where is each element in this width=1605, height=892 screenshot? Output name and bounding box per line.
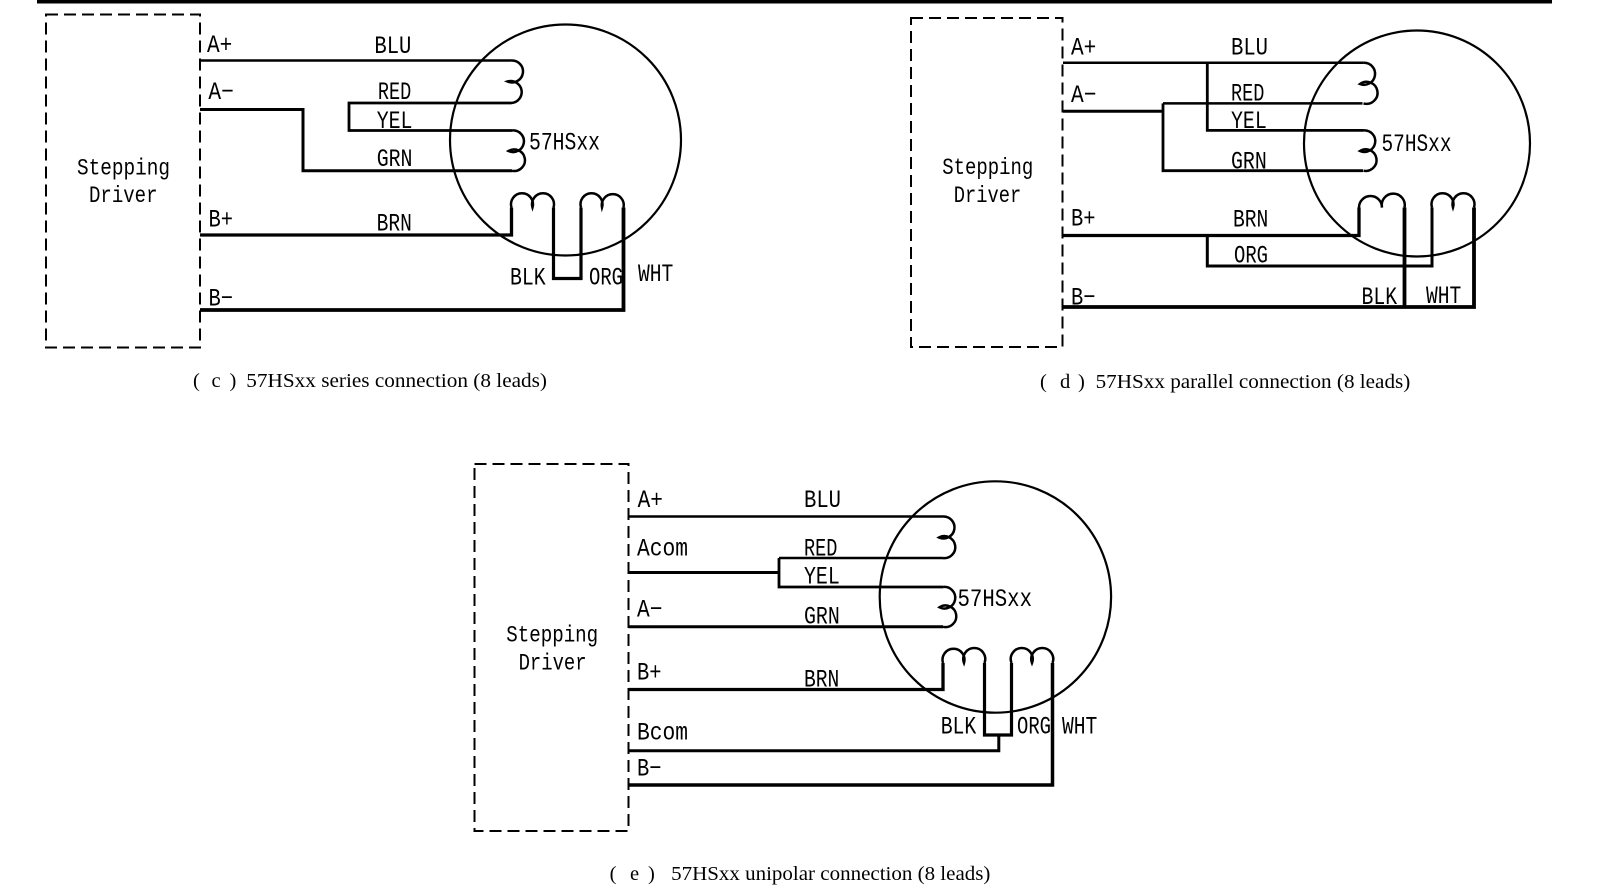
top border bar — [37, 0, 1552, 4]
svg-text:B+: B+ — [637, 659, 662, 688]
coil A2 (c) YEL-GRN winding — [509, 130, 525, 171]
wire A- (d) — [1063, 110, 1163, 113]
svg-text:RED: RED — [804, 535, 837, 564]
svg-text:YEL: YEL — [377, 107, 413, 136]
wire B+ to BRN (e) — [629, 663, 944, 690]
motor M2 outline (d) — [1304, 31, 1530, 257]
svg-text:BLK: BLK — [1362, 283, 1398, 312]
svg-text:YEL: YEL — [804, 563, 840, 592]
svg-text:BRN: BRN — [377, 210, 412, 239]
coil B1 (d) BRN-BLK winding — [1359, 194, 1405, 208]
svg-text:Driver: Driver — [954, 183, 1021, 209]
svg-text:RED: RED — [378, 78, 411, 107]
svg-text:A+: A+ — [638, 486, 663, 515]
wire RED-GRN branch vertical (d) — [1163, 103, 1363, 170]
svg-text:A−: A− — [1071, 81, 1096, 110]
driver box U2 (d) Stepping Driver — [911, 18, 1063, 347]
wire B+ branch to ORG (d) — [1207, 208, 1432, 267]
svg-text:BLU: BLU — [374, 32, 411, 61]
svg-text:WHT: WHT — [638, 260, 673, 289]
svg-text:Acom: Acom — [637, 535, 688, 564]
coil B1 (e) BRN-BLK winding — [943, 648, 986, 663]
svg-text:A−: A− — [208, 78, 233, 107]
wire RED-YEL series link (c) — [349, 103, 512, 131]
coil A2 (d) YEL-GRN winding — [1360, 130, 1377, 171]
coil B2 (e) ORG-WHT winding — [1011, 648, 1054, 663]
svg-text:WHT: WHT — [1426, 282, 1461, 311]
svg-text:ORG: ORG — [589, 263, 623, 292]
wire A+ to BLU (c) — [200, 59, 511, 62]
svg-text:A−: A− — [637, 596, 662, 625]
wire BLK-ORG series link (c) — [554, 208, 582, 279]
wire B+ to BRN (c) — [200, 208, 512, 236]
svg-text:BLK: BLK — [510, 263, 546, 292]
wire RED (d) — [1163, 102, 1363, 105]
wire A+ to BLU (e) — [629, 515, 943, 518]
wire RED (e) — [779, 557, 943, 560]
svg-text:BLU: BLU — [1231, 34, 1268, 63]
svg-text:GRN: GRN — [377, 145, 413, 174]
svg-text:57HSxx: 57HSxx — [958, 585, 1033, 614]
coil B2 (c) ORG-WHT winding — [581, 193, 624, 207]
svg-text:(c)57HSxx series connection (8: (c)57HSxx series connection (8 leads) — [193, 370, 547, 392]
svg-text:57HSxx: 57HSxx — [529, 129, 600, 158]
wire BLK-ORG link (e) — [985, 663, 1012, 735]
svg-text:A+: A+ — [1071, 34, 1096, 63]
coil B1 (c) BRN-BLK winding — [511, 193, 554, 207]
svg-text:BLU: BLU — [804, 486, 841, 515]
svg-text:(d)57HSxx parallel connection: (d)57HSxx parallel connection (8 leads) — [1040, 371, 1410, 393]
svg-text:BRN: BRN — [1233, 206, 1268, 235]
coil A1 (c) BLU-RED winding — [508, 60, 523, 103]
wire A+ branch to YEL (d) — [1207, 63, 1363, 131]
svg-text:B−: B− — [637, 755, 662, 784]
coil A2 (e) YEL-GRN winding — [940, 587, 957, 627]
driver box U3 (e) Stepping Driver — [475, 464, 629, 831]
wire A- to GRN (c) — [200, 110, 512, 171]
motor M1 outline (c) — [450, 25, 681, 256]
coil A1 (d) BLU-RED winding — [1360, 63, 1378, 104]
svg-text:RED: RED — [1231, 80, 1264, 109]
wire B+ to BRN (d) — [1063, 208, 1359, 236]
svg-text:A+: A+ — [207, 31, 232, 60]
svg-text:B+: B+ — [1071, 205, 1096, 234]
coil B2 (d) ORG-WHT winding — [1432, 193, 1475, 207]
svg-text:GRN: GRN — [804, 603, 840, 632]
svg-text:YEL: YEL — [1231, 107, 1267, 136]
svg-text:Bcom: Bcom — [637, 719, 688, 748]
wire B- to WHT (c) — [200, 208, 624, 311]
wire BLK leg (d) — [1403, 208, 1407, 308]
svg-text:57HSxx: 57HSxx — [1382, 130, 1452, 159]
motor M3 outline (e) — [880, 481, 1111, 712]
svg-text:ORG: ORG — [1234, 242, 1268, 271]
svg-text:Stepping: Stepping — [942, 155, 1033, 181]
wire B- to WHT (d) — [1063, 208, 1474, 308]
wire Acom (e) — [629, 571, 780, 574]
coil A1 (e) BLU-RED winding — [939, 516, 955, 558]
svg-text:BRN: BRN — [804, 666, 839, 695]
svg-text:BLK: BLK — [941, 713, 977, 742]
svg-text:WHT: WHT — [1062, 713, 1097, 742]
wire RED-YEL link (e) — [779, 558, 943, 587]
wire A- to GRN (e) — [629, 625, 944, 628]
driver box U1 (c) Stepping Driver — [46, 15, 200, 348]
wire Bcom tap (e) — [629, 735, 999, 751]
svg-text:B−: B− — [209, 285, 234, 314]
svg-text:ORG: ORG — [1017, 713, 1051, 742]
svg-text:B+: B+ — [209, 206, 234, 235]
svg-text:Driver: Driver — [519, 650, 587, 676]
svg-text:Driver: Driver — [89, 183, 158, 209]
svg-text:Stepping: Stepping — [77, 156, 170, 182]
wire A+ to BLU (d) — [1063, 62, 1363, 65]
wire B- to WHT (e) — [629, 663, 1053, 785]
svg-text:GRN: GRN — [1231, 148, 1267, 177]
svg-text:Stepping: Stepping — [506, 623, 598, 649]
svg-text:B−: B− — [1071, 284, 1096, 313]
